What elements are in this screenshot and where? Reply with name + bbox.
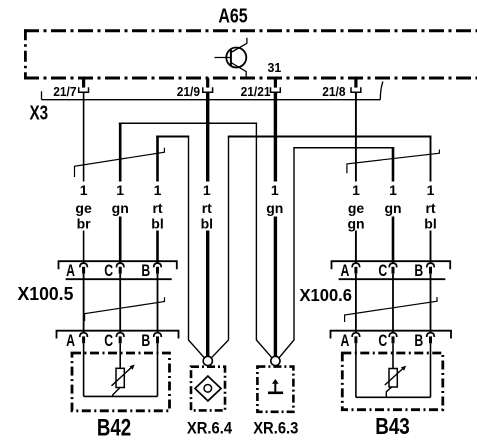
wire B inside B43 (430, 343, 432, 397)
svg-text:1: 1 (427, 182, 435, 198)
cable sheath line XR.6.4 left (189, 137, 205, 358)
wire B inside B42 (157, 343, 159, 396)
wire left rt-bl vertical to X100.5 pin B (156, 136, 159, 263)
pin arrow C X100.6 row2 (389, 333, 397, 344)
transistor base bar (230, 50, 232, 65)
cable sheath line XR.6.3 left (256, 123, 272, 358)
pin 21/9 stub (206, 78, 209, 88)
svg-text:1: 1 (116, 182, 124, 198)
pin 21/9 socket (203, 87, 213, 92)
svg-text:ge: ge (348, 200, 365, 216)
pin arrow A X100.6 row1 (352, 263, 360, 274)
pin arrow B X100.5 row1 (154, 263, 162, 274)
svg-text:bl: bl (151, 216, 163, 232)
svg-text:1: 1 (271, 182, 279, 198)
wire C between X100.6 rows (392, 274, 394, 333)
sensor B43 box (342, 353, 443, 410)
rotary symbol diamond XR.6.4 (195, 376, 221, 401)
connector X3 bracket left tick (41, 91, 43, 99)
control unit A65 box top border (24, 29, 477, 32)
svg-text:gn: gn (112, 200, 129, 216)
rotary symbol circle XR.6.4 (204, 385, 212, 393)
svg-text:B42: B42 (97, 414, 131, 441)
svg-text:gn: gn (384, 200, 401, 216)
wire from 21/7 down to X100.5 pin A (83, 92, 85, 263)
svg-text:gn: gn (347, 216, 364, 232)
transistor circle inside A65 (226, 48, 246, 68)
sensor B42 box (72, 353, 170, 411)
potentiometer bottom lead B42 (113, 388, 120, 397)
connector X100.6 row2 top rail (331, 331, 452, 339)
svg-text:31: 31 (268, 61, 282, 75)
potentiometer bottom lead B43 (386, 387, 392, 398)
control unit A65 box bottom border (24, 77, 477, 80)
svg-text:A: A (340, 262, 349, 280)
pin arrow A X100.5 row2 (80, 333, 88, 344)
pin 21/21 socket (271, 87, 281, 92)
connector sleeve XR.6.3 box (257, 367, 293, 412)
wire rail R3 rt-bl right (228, 136, 431, 138)
pin arrow C X100.5 row2 (116, 333, 124, 344)
wire label 1 gn right (384, 182, 401, 217)
potentiometer arrow B43 (385, 368, 404, 385)
bus bar inside B42 (84, 395, 158, 397)
svg-text:rt: rt (425, 200, 435, 216)
control unit A65 box left border (24, 29, 27, 79)
svg-text:rt: rt (152, 200, 162, 216)
svg-text:B43: B43 (375, 414, 410, 439)
pin 21/8 stub (354, 78, 357, 88)
connector X3 bracket line (42, 99, 381, 101)
potentiometer arrowhead B43 (401, 366, 406, 371)
wire B between X100.6 rows (430, 274, 432, 333)
svg-text:X100.6: X100.6 (300, 284, 352, 305)
svg-text:B: B (141, 332, 150, 350)
cable sheath line XR.6.4 right (211, 137, 228, 358)
pin arrow A X100.6 row2 (352, 333, 360, 344)
connector X100.5 row1 top rail (59, 261, 177, 269)
connector sleeve circle XR.6.3 (271, 356, 280, 365)
pin 21/7 socket (79, 87, 89, 92)
svg-text:1: 1 (80, 182, 88, 198)
wire label 1 gn center (266, 182, 283, 217)
svg-text:1: 1 (389, 182, 397, 198)
wire label 1 ge br (75, 182, 92, 232)
wire A inside B42 (83, 343, 85, 396)
svg-text:A: A (66, 262, 75, 280)
svg-text:21/8: 21/8 (322, 85, 345, 100)
cable sheath line XR.6.3 right (279, 148, 294, 358)
pin 21/8 socket (351, 87, 361, 92)
transistor base lead (215, 57, 231, 59)
wire rail R2 rt-bl left (156, 136, 189, 138)
wire C inside B42 (119, 343, 121, 368)
wire label 1 gn (112, 182, 129, 217)
wire rail R1 gn left (119, 122, 257, 124)
wire from 21/9 down to connector sleeve XR.6.4 (206, 92, 209, 356)
svg-text:21/9: 21/9 (177, 85, 200, 100)
pin arrow C X100.5 row1 (116, 263, 124, 274)
svg-text:ge: ge (75, 200, 92, 216)
svg-text:1: 1 (352, 182, 360, 198)
plug symbol stem XR.6.3 (274, 382, 276, 393)
harness marker right lower (345, 297, 437, 322)
potentiometer body B43 (389, 369, 397, 388)
pin arrow B X100.6 row1 (427, 263, 435, 274)
wire B between X100.5 rows (157, 274, 159, 333)
plug symbol base XR.6.3 (268, 391, 283, 394)
pin arrow A X100.5 row1 (80, 263, 88, 274)
potentiometer body B42 (116, 368, 124, 387)
svg-text:B: B (141, 262, 150, 280)
connector X100.5 row2 top rail (57, 331, 179, 339)
svg-text:21/7: 21/7 (53, 85, 76, 100)
svg-text:A: A (340, 332, 349, 350)
svg-text:XR.6.4: XR.6.4 (187, 420, 232, 438)
wire A between X100.6 rows (355, 274, 357, 333)
connector X100.6 row1 top rail (332, 261, 451, 269)
wire A inside B43 (355, 343, 357, 397)
wire from 21/21 down to connector sleeve XR.6.3 (274, 92, 277, 356)
potentiometer arrow B42 (112, 367, 133, 386)
plug symbol tip XR.6.3 (272, 379, 279, 384)
wire label 1 rt bl right (423, 182, 439, 232)
wire A between X100.5 rows (83, 274, 85, 333)
svg-text:br: br (77, 216, 92, 232)
bus bar inside B43 (356, 396, 431, 398)
connector X100.6 row1 bottom rail (339, 278, 446, 280)
wire label 1 ge gn (347, 182, 364, 232)
svg-text:B: B (414, 332, 423, 350)
pin 21/7 stub (82, 78, 85, 88)
svg-text:X3: X3 (30, 101, 49, 124)
wire rail R4 gn right (293, 147, 393, 149)
harness marker right upper (347, 150, 440, 174)
wire label 1 rt bl (150, 182, 166, 232)
svg-text:C: C (378, 332, 387, 350)
svg-text:XR.6.3: XR.6.3 (253, 420, 298, 438)
potentiometer arrowhead B42 (129, 365, 134, 370)
connector X3 bracket right hook (380, 82, 383, 100)
harness marker left upper (75, 148, 165, 177)
pin arrow B X100.5 row2 (154, 333, 162, 344)
wire C between X100.5 rows (119, 274, 121, 333)
svg-text:A: A (66, 332, 75, 350)
connector sleeve circle XR.6.4 (203, 356, 212, 365)
transistor emitter lead to internal ground (231, 63, 246, 77)
pin arrow C X100.6 row1 (389, 263, 397, 274)
svg-text:1: 1 (154, 182, 162, 198)
svg-text:A65: A65 (218, 4, 247, 27)
svg-text:C: C (104, 332, 113, 350)
wire right rt-bl vertical to X100.6 pin B (430, 136, 432, 263)
svg-text:B: B (414, 262, 423, 280)
connector X100.5 row1 bottom rail (66, 278, 172, 280)
pin 21/21 stub (274, 78, 277, 88)
pin arrow B X100.6 row2 (427, 333, 435, 344)
svg-text:21/21: 21/21 (241, 85, 271, 100)
wire label 1 rt bl center (199, 182, 215, 232)
svg-text:1: 1 (203, 182, 211, 198)
connector sleeve XR.6.4 box (191, 367, 225, 411)
svg-text:gn: gn (266, 200, 283, 216)
transistor collector lead (231, 38, 247, 53)
wire right gn vertical to X100.6 pin C (392, 147, 395, 263)
wire C inside B43 (392, 343, 394, 368)
svg-text:rt: rt (202, 200, 212, 216)
svg-text:bl: bl (201, 216, 213, 232)
svg-text:X100.5: X100.5 (18, 284, 74, 304)
harness marker left lower (85, 297, 165, 321)
svg-text:bl: bl (424, 216, 436, 232)
wire from 21/8 down to X100.6 pin A (355, 92, 357, 263)
svg-text:C: C (378, 262, 387, 280)
wire left gn vertical to X100.5 pin C (119, 123, 122, 263)
svg-text:C: C (104, 262, 113, 280)
